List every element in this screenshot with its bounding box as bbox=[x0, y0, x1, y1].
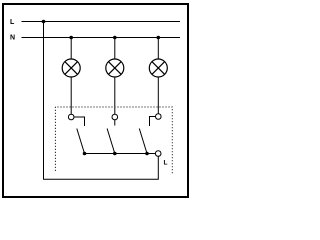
wire L bus bbox=[22, 21, 181, 23]
terminal circle S3 bbox=[156, 114, 162, 120]
switch S2 bbox=[107, 114, 118, 155]
wire switch common bus bbox=[85, 153, 156, 155]
terminal circle S1 bbox=[68, 114, 74, 120]
wire lamp E3 to switch S3 bbox=[157, 77, 159, 114]
lamp E1 bbox=[62, 59, 80, 77]
switch enclosure (dashed box) bbox=[55, 107, 172, 175]
terminal L of switch box bbox=[155, 151, 161, 157]
pivot node S1 bbox=[83, 152, 87, 156]
terminal circle S2 bbox=[112, 114, 118, 120]
contact hook S3 bbox=[150, 117, 156, 127]
wire N to lamp E3 bbox=[157, 38, 159, 60]
lamp E3 bbox=[149, 59, 167, 77]
pivot node S3 bbox=[145, 152, 149, 156]
node L junction bbox=[42, 20, 46, 24]
lever S3 bbox=[139, 129, 147, 154]
lamp E2 bbox=[106, 59, 124, 77]
lever S1 bbox=[77, 129, 85, 154]
node N junction 2 bbox=[113, 36, 117, 40]
wire N to lamp E1 bbox=[70, 38, 72, 60]
contact hook S1 bbox=[74, 117, 85, 126]
wire lamp E1 to switch S1 bbox=[70, 77, 72, 114]
wire N bus bbox=[22, 37, 181, 39]
pivot node S2 bbox=[113, 152, 117, 156]
wire lamp E2 to switch S2 bbox=[114, 77, 116, 114]
svg-text:L: L bbox=[164, 160, 168, 167]
svg-text:N: N bbox=[10, 35, 15, 42]
wire L feed (from L bus to switch box terminal) bbox=[44, 22, 159, 180]
switch S3 bbox=[139, 114, 161, 156]
switch S1 bbox=[68, 114, 86, 155]
contact stub S2 bbox=[114, 120, 116, 126]
node N junction 3 bbox=[157, 36, 161, 40]
lever S2 bbox=[107, 129, 115, 154]
wire N to lamp E2 bbox=[114, 38, 116, 60]
node N junction 1 bbox=[69, 36, 73, 40]
svg-text:L: L bbox=[10, 19, 15, 26]
